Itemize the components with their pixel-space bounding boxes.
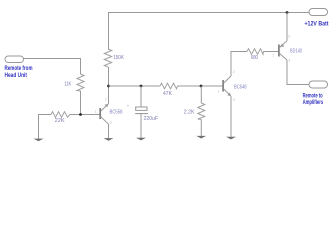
- connector J3 (Remote to Amplifiers): [309, 81, 328, 88]
- svg-text:+12V Batt: +12V Batt: [305, 21, 329, 27]
- connector J1 (Remote from Head Unit): [5, 56, 24, 63]
- svg-text:2: 2: [105, 98, 107, 102]
- transistor Q1 BC558: [100, 104, 108, 125]
- wire Q3 collector down to J3: [287, 60, 309, 85]
- resistor R4 47K (horizontal): [160, 83, 178, 89]
- wire 680 to Q3 base: [264, 51, 279, 53]
- svg-text:47K: 47K: [163, 91, 173, 97]
- wire 150K bottom to node: [108, 67, 110, 86]
- svg-text:1: 1: [95, 110, 97, 114]
- resistor R2 11K (vertical): [77, 74, 84, 91]
- connector J2 (+12V Batt): [309, 9, 328, 16]
- node collector junction: [107, 85, 110, 88]
- svg-text:Remote to: Remote to: [303, 94, 323, 100]
- resistor R5 2.2K (vertical): [198, 103, 205, 120]
- svg-text:2: 2: [233, 70, 235, 74]
- wire 22K left to ground stem: [39, 115, 52, 140]
- resistor R6 680 (horizontal): [247, 49, 264, 55]
- svg-text:3: 3: [288, 59, 290, 63]
- svg-text:3: 3: [233, 98, 235, 102]
- resistor R3 22K (horizontal): [51, 112, 70, 118]
- wire 2.2K top lead: [200, 86, 202, 103]
- resistor R1 150K (vertical): [104, 49, 111, 67]
- wire cap bottom lead: [140, 114, 142, 138]
- node base junction: [79, 113, 82, 116]
- wire Q2 collector up to 680: [231, 52, 247, 77]
- wire Q3 emitter to rail: [286, 13, 288, 41]
- svg-text:Remote from: Remote from: [5, 66, 33, 72]
- svg-text:1: 1: [218, 89, 220, 93]
- transistor Q3 BD140: [279, 41, 287, 60]
- svg-text:Head Unit: Head Unit: [5, 73, 28, 79]
- wire cap top lead: [140, 86, 142, 107]
- svg-text:BC558: BC558: [110, 110, 123, 116]
- transistor Q2 BC548: [223, 76, 231, 96]
- svg-text:2: 2: [288, 34, 290, 38]
- wire top rail: [108, 12, 309, 14]
- wire node to 47K: [109, 85, 161, 87]
- wire J1 to 11K: [24, 59, 81, 75]
- svg-text:680: 680: [251, 55, 258, 61]
- node cap junction: [140, 85, 143, 88]
- wire 150K top to rail: [108, 13, 110, 50]
- wire 47K to Q2 base: [178, 85, 223, 87]
- node rail junction: [286, 11, 289, 14]
- wire 22K to Q1 base: [70, 114, 100, 116]
- svg-text:+: +: [127, 104, 130, 110]
- node 2.2K junction: [200, 85, 203, 88]
- svg-text:22K: 22K: [55, 118, 66, 124]
- svg-text:11K: 11K: [64, 82, 72, 88]
- wire Q1 emitter down: [108, 124, 110, 138]
- ground (under Q1): [104, 138, 114, 141]
- wire 2.2K bottom: [200, 120, 202, 137]
- svg-text:150K: 150K: [113, 55, 124, 61]
- svg-text:220uF: 220uF: [144, 116, 159, 122]
- ground (left): [34, 139, 44, 142]
- wire Q1 collector up to node: [108, 86, 110, 104]
- svg-text:2.2K: 2.2K: [184, 110, 195, 116]
- ground (under 2.2K): [196, 136, 206, 139]
- ground (under Q2): [226, 137, 236, 140]
- wire 11K bottom to base node: [80, 91, 82, 115]
- capacitor C1 220uF: [135, 107, 148, 114]
- svg-text:Amplifiers: Amplifiers: [303, 100, 324, 106]
- wire Q2 emitter to ground: [230, 96, 232, 137]
- svg-text:BD140: BD140: [290, 48, 302, 54]
- svg-text:1: 1: [272, 54, 274, 58]
- ground (under cap): [136, 138, 146, 141]
- svg-text:BC548: BC548: [234, 85, 247, 91]
- svg-text:3: 3: [110, 120, 112, 124]
